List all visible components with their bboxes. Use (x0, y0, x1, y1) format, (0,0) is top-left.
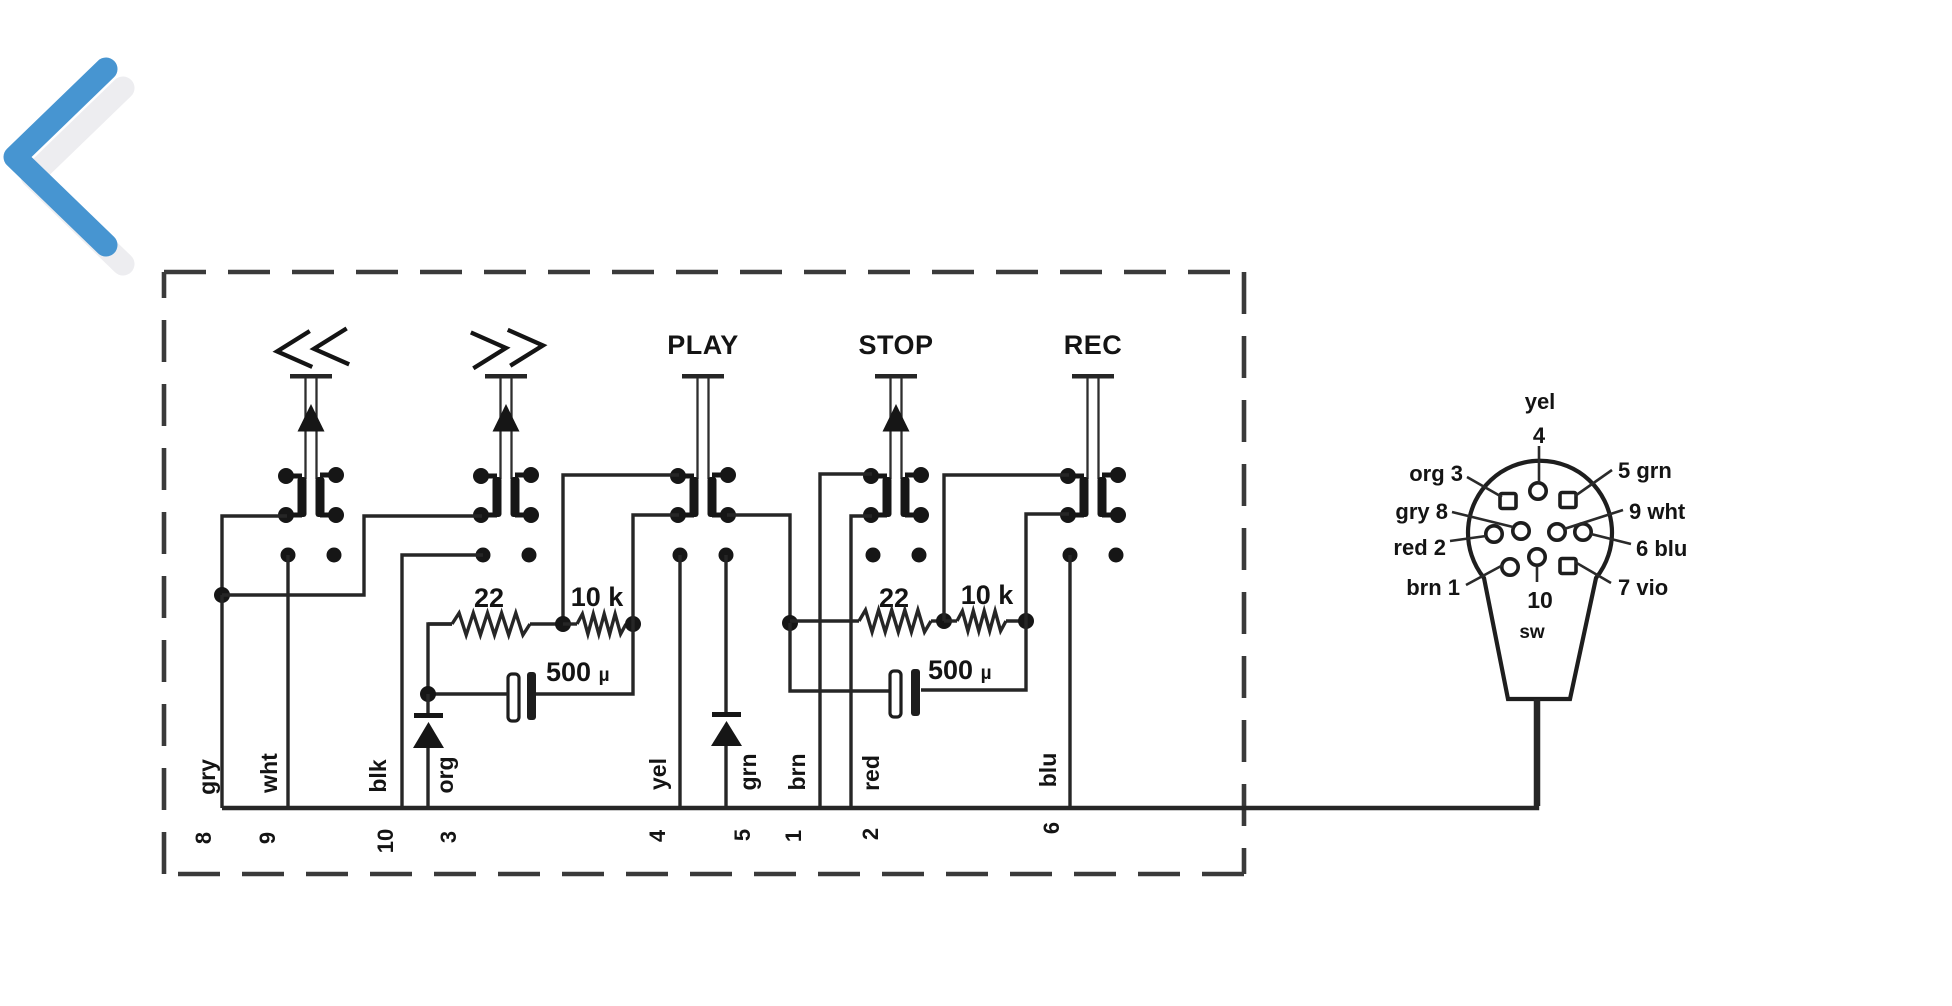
pin 5 leader (1575, 470, 1612, 496)
svg-text:brn 1: brn 1 (1406, 575, 1460, 600)
connector label yel 4 (1525, 389, 1556, 448)
wire R1 left lead down to node B (428, 624, 452, 694)
node A junction dot (214, 587, 230, 603)
wire junction A to S2 lower-left contact (222, 516, 482, 595)
back-arrow shadow (32, 88, 123, 264)
connector pin 1 (1502, 559, 1518, 575)
dashed enclosure border (164, 272, 1244, 874)
svg-text:8: 8 (191, 832, 216, 844)
svg-text:org: org (432, 756, 458, 793)
svg-text:9: 9 (255, 832, 280, 844)
svg-text:sw: sw (1519, 622, 1545, 643)
svg-text:3: 3 (436, 831, 461, 843)
resistor R3 22 (790, 610, 944, 632)
wire grn: S3 lower-right terminal through D2 to bus (724, 555, 727, 808)
svg-text:gry: gry (194, 759, 220, 795)
switch S3 plunger shaft (698, 378, 709, 479)
switch S1 lower terminals (281, 548, 342, 563)
svg-text:yel: yel (645, 758, 671, 790)
connector pin 6 (1575, 524, 1591, 540)
connector pin 5 (1560, 493, 1576, 508)
svg-text:22: 22 (474, 583, 504, 613)
svg-text:10 k: 10 k (571, 582, 625, 612)
pin 8 leader (1452, 512, 1513, 527)
switch S4 plunger cap (875, 374, 917, 379)
svg-text:REC: REC (1064, 330, 1123, 360)
wire S1 lower-left contact to junction A (222, 516, 287, 595)
pushbutton switch S1 label (276, 328, 349, 369)
pin 7 leader (1575, 562, 1611, 583)
pushbutton switch S2 label (471, 327, 544, 368)
switch S5 plunger cap (1072, 374, 1114, 379)
node B junction dot (420, 686, 436, 702)
switch S2 plunger shaft (501, 378, 512, 479)
svg-text:9 wht: 9 wht (1629, 499, 1686, 524)
switch S5 contact terminals (1060, 467, 1126, 523)
resistor R2 10k (563, 614, 633, 634)
switch S4 contact terminals (863, 467, 929, 523)
switch S3 plunger cap (682, 374, 724, 379)
svg-text:yel: yel (1525, 389, 1556, 414)
back-arrow blue chevron (15, 69, 106, 245)
svg-text:10: 10 (1527, 587, 1553, 613)
switch S2 movable contact bars (493, 477, 520, 517)
diode D1 (413, 694, 444, 748)
pin 10 leader (1536, 566, 1539, 582)
pin 3 leader (1467, 477, 1502, 497)
switch S5 plunger shaft (1088, 378, 1099, 479)
node R2 right junction dot (625, 616, 641, 632)
switch S1 actuator arrow (298, 404, 325, 432)
bus wire to connector (222, 699, 1537, 808)
node R4 right junction dot (1018, 613, 1034, 629)
svg-text:org 3: org 3 (1409, 461, 1463, 486)
switch S3 lower terminals (673, 548, 734, 563)
svg-text:4: 4 (645, 829, 670, 842)
switch S5 lower terminals (1063, 548, 1124, 563)
svg-text:6 blu: 6 blu (1636, 536, 1687, 561)
switch S1 plunger shaft (306, 378, 317, 479)
wire red: S4 bottom-left contact to bus (851, 516, 872, 808)
connector pin 4 (1530, 483, 1546, 499)
wire wht: S1 lower terminal to bus (286, 555, 289, 808)
pin 2 leader (1450, 536, 1486, 541)
svg-text:brn: brn (784, 753, 810, 790)
connector pin 2 (1486, 526, 1502, 542)
wire S3 bottom-right contact down to node C (727, 515, 790, 623)
svg-text:5: 5 (730, 829, 755, 841)
switch S4 movable contact bars (883, 477, 910, 517)
capacitor C2 (890, 669, 920, 717)
svg-text:STOP: STOP (858, 330, 933, 360)
svg-text:7 vio: 7 vio (1618, 575, 1668, 600)
svg-text:10: 10 (373, 829, 398, 853)
pin 4 leader (1538, 446, 1541, 483)
resistor R1 22 (428, 613, 563, 635)
connector pin 8 (1513, 523, 1529, 539)
pin 6 leader (1591, 534, 1631, 544)
svg-text:grn: grn (735, 753, 761, 790)
node C junction dot (782, 615, 798, 631)
svg-text:blu: blu (1035, 753, 1061, 788)
switch S2 contact terminals (473, 467, 539, 523)
wire S3 bottom-left contact down through R2 to C1 right lead (535, 515, 679, 694)
wire blk: S2 lower terminal to bus (402, 555, 483, 808)
switch S4 lower terminals (866, 548, 927, 563)
svg-text:PLAY: PLAY (667, 330, 739, 360)
connector pin 9 (1549, 524, 1565, 540)
svg-text:wht: wht (256, 753, 282, 794)
switch S1 movable contact bars (298, 477, 325, 517)
switch S3 movable contact bars (690, 477, 717, 517)
capacitor C1 (428, 672, 536, 721)
svg-text:gry 8: gry 8 (1395, 499, 1448, 524)
wire brn: S4 top-left contact to bus (820, 474, 872, 808)
wire node C down to C2 left lead (790, 623, 891, 691)
node R1/R2 junction dot (555, 616, 571, 632)
connector P1 body (1468, 461, 1612, 699)
switch S3 contact terminals (670, 467, 736, 523)
wire S3 top-left contact to R1/R2 junction (563, 475, 679, 624)
switch S2 plunger cap (485, 374, 527, 379)
connector pin 3 (1500, 494, 1516, 509)
svg-text:4: 4 (1533, 423, 1546, 448)
pin 1 leader (1466, 565, 1503, 585)
connector stem (1534, 699, 1541, 806)
switch S2 lower terminals (476, 548, 537, 563)
connector pin 7 (1560, 559, 1576, 574)
svg-text:red 2: red 2 (1393, 535, 1446, 560)
wire yel: S3 lower-left terminal to bus (678, 555, 681, 808)
svg-text:10 k: 10 k (961, 580, 1015, 610)
wire blu: S5 lower-left terminal to bus (1068, 555, 1071, 808)
switch S4 actuator arrow (883, 404, 910, 432)
diode D2 (711, 712, 742, 746)
node R3/R4 junction dot (936, 613, 952, 629)
connector pin 10 (1529, 549, 1545, 565)
resistor R4 10k (944, 611, 1026, 631)
svg-text:5 grn: 5 grn (1618, 458, 1672, 483)
switch S1 plunger cap (290, 374, 332, 379)
switch S1 contact terminals (278, 467, 344, 523)
svg-text:blk: blk (365, 759, 391, 792)
svg-text:6: 6 (1039, 822, 1064, 834)
svg-text:red: red (858, 755, 884, 791)
svg-text:1: 1 (781, 830, 806, 842)
wire gry: junction A down to bus (220, 595, 223, 808)
switch S2 actuator arrow (493, 404, 520, 432)
wire org: diode D1 to bus (426, 748, 429, 808)
switch S4 plunger shaft (891, 378, 902, 479)
wire S5 bottom-left contact down through R4 to C2 right lead (921, 514, 1069, 690)
switch S5 movable contact bars (1080, 477, 1107, 517)
pin 9 leader (1564, 510, 1623, 529)
wire R3/R4 junction up to S5 top-left contact (944, 475, 1069, 621)
svg-text:2: 2 (858, 828, 883, 840)
